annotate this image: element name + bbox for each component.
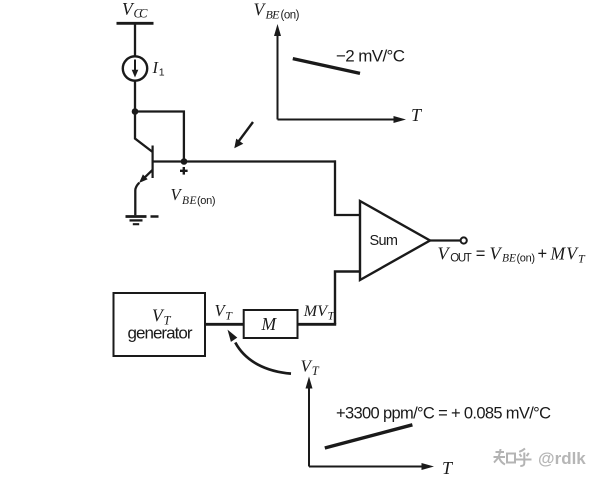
svg-text:BE: BE <box>182 195 197 207</box>
svg-text:(on): (on) <box>517 253 536 265</box>
wire collector feedback node A to base node <box>135 112 184 162</box>
graph 1 VBE(on) vs T : y-axis <box>274 24 281 120</box>
label VBE(on) <box>171 185 216 207</box>
net VCC label <box>122 0 148 20</box>
graph 2 slope line <box>325 425 413 448</box>
wire current source to node A <box>134 81 136 112</box>
graph 1 x-axis <box>278 116 407 123</box>
svg-text:CC: CC <box>134 7 149 21</box>
svg-text:BE: BE <box>502 253 516 265</box>
graph 1 axis label VBE(on) <box>254 0 300 22</box>
svg-text:generator: generator <box>128 324 193 343</box>
watermark zhihu @rdlk <box>494 449 532 467</box>
plus sign at base node <box>180 167 188 175</box>
block M box <box>244 310 298 338</box>
svg-text:(on): (on) <box>197 195 216 207</box>
svg-text:=: = <box>476 245 486 263</box>
svg-text:1: 1 <box>159 66 165 78</box>
svg-text:OUT: OUT <box>450 253 472 265</box>
wire base to sum upper corner <box>153 160 336 162</box>
minus sign near ground <box>151 215 159 218</box>
current source I1 <box>123 56 147 80</box>
node A junction dot <box>132 108 139 115</box>
svg-text:Sum: Sum <box>370 233 399 249</box>
svg-text:BE: BE <box>266 8 281 22</box>
junction dot at base node <box>181 158 188 165</box>
wire M to lower corner <box>298 323 337 326</box>
svg-text:T: T <box>312 364 320 378</box>
graph 1 slope line <box>293 59 360 74</box>
label VT on wire <box>215 301 234 323</box>
graph 2 VT vs T : y-axis <box>306 377 313 467</box>
label MVT <box>303 303 336 323</box>
svg-text:@rdlk: @rdlk <box>538 449 586 468</box>
graph 2 axis label VT <box>301 357 320 379</box>
svg-text:MV: MV <box>550 244 580 264</box>
output wire <box>429 239 461 241</box>
curved arrow pointing at VT node <box>228 330 292 374</box>
svg-text:MV: MV <box>303 303 329 320</box>
output terminal circle <box>461 237 467 243</box>
wire VT generator to M <box>205 323 244 326</box>
svg-text:+3300 ppm/°C = + 0.085 mV/°C: +3300 ppm/°C = + 0.085 mV/°C <box>336 405 551 423</box>
svg-text:+: + <box>538 245 548 263</box>
ground <box>126 217 147 225</box>
svg-text:M: M <box>261 314 278 334</box>
VCC supply bar <box>117 22 154 25</box>
block VT generator box <box>114 293 206 356</box>
wire lower input into Sum <box>335 272 360 325</box>
transistor Q1 diode-connected <box>135 110 153 215</box>
label I1 <box>152 58 165 78</box>
annotation arrow pointing at VBE wire <box>234 122 253 148</box>
wire VCC bar to current source <box>134 24 136 57</box>
svg-text:−2 mV/°C: −2 mV/°C <box>336 47 405 66</box>
graph 2 x-axis <box>309 463 434 470</box>
svg-text:(on): (on) <box>281 10 300 22</box>
wire upper input into Sum <box>335 160 360 215</box>
label VOUT equation <box>438 244 587 266</box>
block VT generator text <box>128 306 193 343</box>
op-amp U1 Sum triangle <box>360 201 430 280</box>
